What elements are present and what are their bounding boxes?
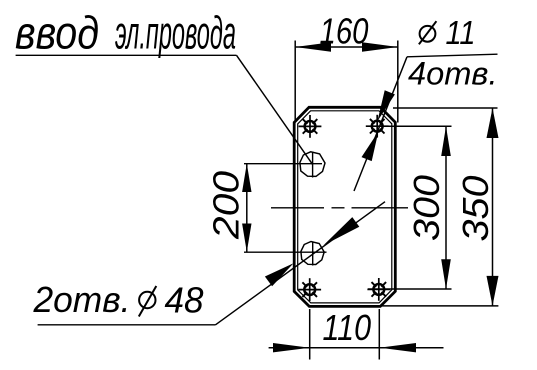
- svg-text:48: 48: [165, 280, 204, 321]
- svg-text:350: 350: [455, 176, 496, 242]
- svg-text:160: 160: [320, 11, 369, 52]
- svg-text:110: 110: [323, 307, 372, 348]
- svg-text:11: 11: [446, 14, 476, 51]
- svg-text:300: 300: [406, 175, 447, 241]
- svg-text:ввод: ввод: [15, 6, 99, 58]
- svg-text:4отв.: 4отв.: [408, 56, 498, 92]
- svg-text:2отв.: 2отв.: [33, 279, 131, 320]
- svg-text:эл.провода: эл.провода: [115, 6, 236, 58]
- svg-text:200: 200: [206, 171, 247, 240]
